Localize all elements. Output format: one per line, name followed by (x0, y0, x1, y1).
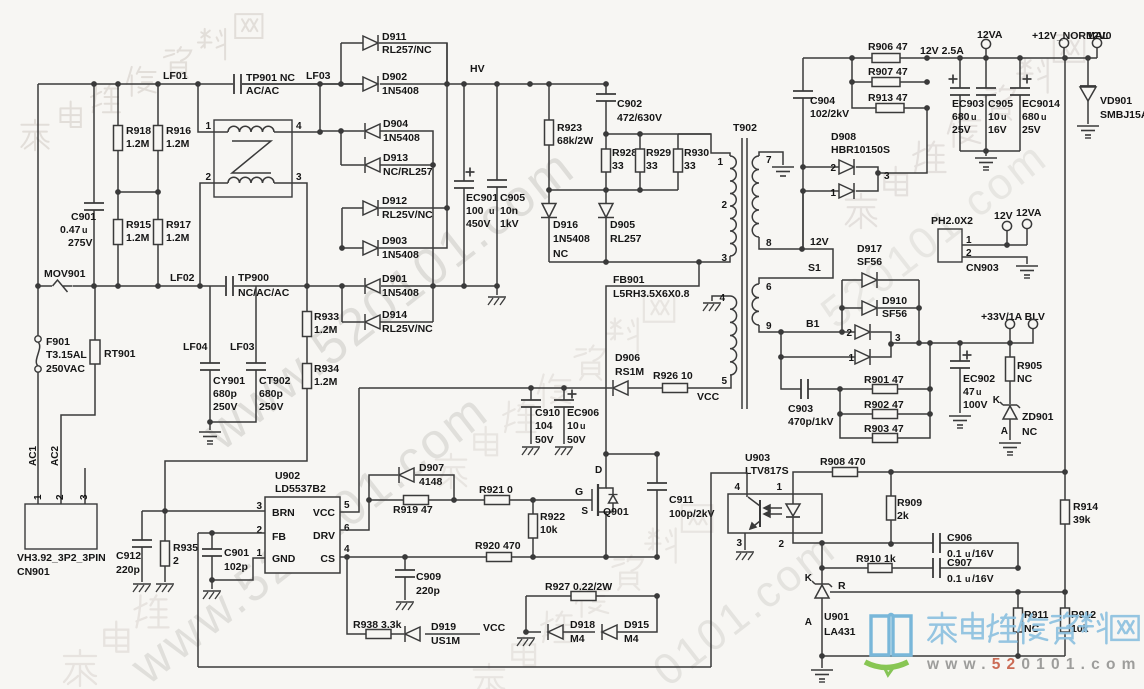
svg-text:R915: R915 (126, 219, 151, 231)
svg-text:C901: C901 (71, 211, 96, 223)
svg-text:R929: R929 (646, 147, 671, 159)
svg-text:6: 6 (766, 282, 772, 293)
svg-text:C905: C905 (988, 98, 1013, 110)
svg-text:2: 2 (256, 525, 262, 536)
capacitor EC9014 (1010, 58, 1060, 151)
diode D907 (369, 462, 454, 500)
svg-text:u: u (489, 206, 495, 216)
svg-text:1.2M: 1.2M (126, 138, 150, 150)
svg-text:u: u (1001, 112, 1007, 122)
svg-text:D904: D904 (383, 118, 408, 130)
svg-text:R907 47: R907 47 (868, 66, 908, 78)
svg-text:NC/RL257: NC/RL257 (383, 166, 433, 178)
svg-text:2: 2 (846, 328, 852, 339)
resistor R929 (636, 134, 672, 190)
svg-text:M4: M4 (570, 633, 585, 645)
zener diode ZD901 (993, 395, 1054, 455)
svg-text:1.2M: 1.2M (314, 376, 338, 388)
wire mid divider rail (115, 189, 161, 195)
capacitor C902 (596, 84, 662, 134)
svg-text:250V: 250V (213, 401, 238, 413)
label 12V 2.5A (920, 45, 964, 57)
svg-text:4148: 4148 (419, 476, 443, 488)
svg-text:7: 7 (766, 155, 772, 166)
node HV (470, 63, 485, 75)
svg-text:C910: C910 (535, 407, 560, 419)
svg-text:MOV901: MOV901 (44, 268, 86, 280)
svg-text:2: 2 (721, 200, 727, 211)
svg-text:u: u (1041, 112, 1047, 122)
svg-text:68k/2W: 68k/2W (557, 135, 593, 147)
svg-text:F901: F901 (46, 336, 70, 348)
wire opto pin1 to R908 (793, 472, 833, 494)
IC U902 LD5537B2 (256, 470, 350, 573)
wire VCC rail (531, 375, 731, 391)
capacitor C901 (60, 84, 104, 286)
svg-text:450V: 450V (466, 218, 491, 230)
resistor R938 (347, 557, 404, 639)
svg-text:RL257: RL257 (610, 233, 642, 245)
shunt regulator U901 LA431 (805, 568, 856, 656)
capacitor EC903 (949, 58, 985, 151)
svg-text:R927 0.22/2W: R927 0.22/2W (545, 581, 612, 593)
svg-text:33: 33 (612, 160, 624, 172)
wire reference R row (830, 580, 1068, 595)
svg-text:U902: U902 (275, 470, 300, 482)
svg-text:C906: C906 (947, 532, 972, 544)
svg-text:2k: 2k (897, 510, 909, 522)
capacitor C901 at FB (202, 533, 249, 599)
svg-text:R910 1k: R910 1k (856, 553, 896, 565)
svg-text:R919 47: R919 47 (393, 504, 433, 516)
svg-text:1: 1 (33, 494, 44, 500)
svg-text:D913: D913 (383, 152, 408, 164)
svg-text:8: 8 (766, 238, 772, 249)
svg-text:CY901: CY901 (213, 375, 245, 387)
resistor R901 (837, 374, 933, 394)
svg-text:250V: 250V (259, 401, 284, 413)
resistor R907 (849, 58, 930, 87)
node LF03 (306, 70, 331, 82)
capacitor C910 (521, 388, 560, 455)
svg-text:3: 3 (79, 494, 90, 500)
svg-text:10n: 10n (500, 205, 518, 217)
svg-text:AC1: AC1 (28, 446, 39, 466)
diode D902 (363, 71, 419, 97)
svg-text:HV: HV (470, 63, 485, 75)
capacitor C907 (933, 557, 1021, 585)
svg-text:1N5408: 1N5408 (553, 233, 590, 245)
svg-text:2: 2 (830, 163, 836, 174)
capacitor EC906 (554, 388, 599, 455)
svg-text:LA431: LA431 (824, 626, 856, 638)
svg-text:D918: D918 (570, 619, 595, 631)
svg-text:RL25V/NC: RL25V/NC (382, 209, 433, 221)
svg-text:1N5408: 1N5408 (382, 85, 419, 97)
wire LF02 rail (35, 283, 500, 289)
terminal 12VA top (977, 29, 1003, 58)
wire bridge right vertical to HV (446, 43, 448, 208)
wire bridge mid vertical (432, 165, 434, 322)
svg-text:U903: U903 (745, 452, 770, 464)
svg-text:10: 10 (567, 420, 579, 432)
capacitor CT902 (210, 286, 291, 422)
wire FB pin2 row and feedback line (198, 530, 265, 667)
resistor R905 (1006, 343, 1043, 404)
svg-text:R928: R928 (612, 147, 637, 159)
resistor R912 (1061, 592, 1097, 656)
wire CN903 pin1 to 12V terminals (962, 242, 1027, 248)
diode D911 (341, 31, 447, 84)
wire LF01 dot to pin1 (198, 84, 214, 132)
svg-text:3: 3 (721, 253, 727, 264)
resistor R906 (868, 41, 908, 63)
svg-text:R917: R917 (166, 219, 191, 231)
svg-text:FB901: FB901 (613, 274, 645, 286)
svg-text:R918: R918 (126, 125, 151, 137)
svg-text:M4: M4 (624, 633, 639, 645)
svg-text:39k: 39k (1073, 514, 1091, 526)
terminal 12VA service (1016, 207, 1042, 245)
svg-text:50V: 50V (535, 434, 554, 446)
svg-text:D919: D919 (431, 621, 456, 633)
T902 primary winding 1-3 (678, 134, 736, 264)
wire LF01 to bridge node LF03 (242, 81, 364, 87)
capacitor EC901 (454, 84, 498, 286)
logo book icon (865, 615, 911, 676)
svg-text:AC/AC: AC/AC (246, 85, 280, 97)
svg-text:3: 3 (296, 172, 302, 183)
svg-text:R926 10: R926 10 (653, 370, 693, 382)
svg-text:LD5537B2: LD5537B2 (275, 483, 326, 495)
svg-text:EC903: EC903 (952, 98, 984, 110)
wire DRV pin6 to node (340, 500, 369, 530)
svg-text:RT901: RT901 (104, 348, 136, 360)
svg-text:EC9014: EC9014 (1022, 98, 1060, 110)
svg-text:D906: D906 (615, 352, 640, 364)
resistor R923 (545, 84, 594, 190)
capacitor C912 (116, 511, 152, 592)
capacitor C906 labels (947, 532, 994, 560)
diode D921 pos1 (778, 332, 901, 365)
svg-text:47: 47 (963, 386, 975, 398)
svg-text:250VAC: 250VAC (46, 363, 85, 375)
svg-text:D916: D916 (553, 219, 578, 231)
svg-text:R938 3.3k: R938 3.3k (353, 619, 402, 631)
svg-text:RL257/NC: RL257/NC (382, 44, 432, 56)
svg-text:u: u (580, 421, 586, 431)
capacitor C905 primary (487, 84, 525, 286)
resistor R911 (1014, 592, 1049, 656)
svg-text:12V 2.5A: 12V 2.5A (920, 45, 964, 57)
svg-text:1N5408: 1N5408 (382, 287, 419, 299)
svg-text:NC: NC (1017, 373, 1033, 385)
wire secondary ground rail (819, 653, 1065, 659)
diode D913 (341, 152, 436, 178)
svg-text:D911: D911 (382, 31, 407, 43)
svg-text:LF03: LF03 (306, 70, 331, 82)
svg-text:220p: 220p (416, 585, 440, 597)
svg-text:D910: D910 (882, 295, 907, 307)
svg-text:33: 33 (646, 160, 658, 172)
svg-text:C911: C911 (669, 494, 694, 506)
terminal +33V (981, 311, 1045, 343)
resistor R909 (887, 472, 923, 544)
svg-text:LF02: LF02 (170, 272, 195, 284)
svg-text:1.2M: 1.2M (126, 232, 150, 244)
wire drain node rail (549, 259, 702, 265)
diode D910 (839, 280, 919, 332)
terminal 12V service (994, 210, 1013, 245)
svg-text:5: 5 (721, 376, 727, 387)
wire CS row (340, 554, 660, 560)
svg-text:2: 2 (778, 539, 784, 550)
svg-text:R905: R905 (1017, 360, 1042, 372)
wire snubber top rail (546, 131, 711, 193)
wire D917 D910 join (916, 280, 922, 346)
svg-text:/16V: /16V (972, 573, 994, 585)
resistor R919 (366, 496, 457, 517)
svg-text:T3.15AL: T3.15AL (46, 349, 87, 361)
resistor R914 (1061, 472, 1099, 592)
LF choke winding 1-4 (205, 121, 302, 132)
svg-text:R923: R923 (557, 122, 582, 134)
svg-text:Q901: Q901 (603, 506, 629, 518)
svg-text:BRN: BRN (272, 507, 295, 519)
svg-text:SF56: SF56 (882, 308, 907, 320)
svg-text:680: 680 (1022, 111, 1040, 123)
svg-text:LF01: LF01 (163, 70, 188, 82)
svg-text:A: A (805, 617, 812, 628)
diode D912 (342, 195, 450, 221)
ground for Y caps (199, 419, 221, 444)
resistor R928 (602, 134, 638, 190)
svg-text:G: G (575, 486, 583, 498)
T902 secondary winding 6-9 (752, 282, 845, 335)
svg-text:12VA: 12VA (977, 29, 1003, 41)
logo site url (926, 656, 1142, 673)
svg-text:US1M: US1M (431, 635, 460, 647)
resistor R926 (653, 370, 720, 403)
svg-text:R902 47: R902 47 (864, 399, 904, 411)
svg-text:S1: S1 (808, 262, 821, 274)
svg-text:R914: R914 (1073, 501, 1098, 513)
capacitor EC902 (949, 343, 995, 428)
svg-text:u: u (965, 574, 971, 584)
node LF03 lower (230, 341, 255, 353)
svg-text:680p: 680p (259, 388, 283, 400)
diode D915 (602, 596, 657, 645)
svg-text:4: 4 (296, 121, 302, 132)
capacitor C903 (781, 357, 840, 428)
transformer LF common-mode choke box (214, 120, 292, 197)
svg-text:R935: R935 (173, 542, 198, 554)
LF choke core Z mark (232, 141, 271, 173)
svg-text:3: 3 (884, 171, 890, 182)
svg-text:220p: 220p (116, 564, 140, 576)
connector CN903 (931, 215, 999, 274)
svg-text:R901 47: R901 47 (864, 374, 904, 386)
svg-text:R922: R922 (540, 511, 565, 523)
resistor R910 (819, 543, 933, 573)
svg-text:D908: D908 (831, 131, 856, 143)
svg-text:CS: CS (320, 553, 335, 565)
svg-text:u: u (976, 387, 982, 397)
wire +33V rail (891, 329, 1033, 346)
node LF01 (163, 70, 188, 82)
diode D903 (342, 208, 447, 261)
wire BRN pin3 row (142, 508, 265, 514)
svg-text:12V0: 12V0 (1087, 30, 1112, 42)
svg-text:TP901 NC: TP901 NC (246, 72, 295, 84)
svg-text:u: u (82, 225, 88, 235)
wire pin3 down to R933 column (292, 183, 307, 286)
svg-text:CN903: CN903 (966, 262, 999, 274)
svg-text:K: K (993, 395, 1001, 406)
svg-text:0.47: 0.47 (60, 224, 81, 236)
svg-text:9: 9 (766, 321, 772, 332)
svg-text:NC: NC (553, 248, 569, 260)
svg-text:LF03: LF03 (230, 341, 255, 353)
diode D901 (365, 273, 419, 299)
svg-text:K: K (805, 573, 813, 584)
diode D906 (613, 352, 644, 396)
transformer T902 core (742, 138, 747, 409)
capacitor C904 (793, 58, 849, 249)
svg-text:DRV: DRV (313, 530, 335, 542)
svg-text:/16V: /16V (972, 548, 994, 560)
svg-text:10: 10 (988, 111, 1000, 123)
svg-text:1: 1 (830, 188, 836, 199)
wire right 12V sense vertical (1062, 58, 1068, 475)
svg-text:R920 470: R920 470 (475, 540, 521, 552)
svg-text:AC2: AC2 (50, 446, 61, 466)
svg-text:D907: D907 (419, 462, 444, 474)
svg-text:D903: D903 (382, 235, 407, 247)
svg-text:A: A (1001, 426, 1008, 437)
svg-text:SMBJ15A: SMBJ15A (1100, 109, 1144, 121)
svg-text:2: 2 (173, 555, 179, 567)
wire opto pin4 to primary return (711, 473, 747, 667)
diode D917 (842, 243, 919, 288)
svg-text:4: 4 (344, 544, 350, 555)
svg-text:10k: 10k (540, 524, 558, 536)
svg-text:HBR10150S: HBR10150S (831, 144, 890, 156)
svg-text:1kV: 1kV (500, 218, 519, 230)
ground opto pin3 (736, 533, 754, 560)
svg-text:CN901: CN901 (17, 566, 50, 578)
svg-text:1.2M: 1.2M (166, 232, 190, 244)
svg-text:C909: C909 (416, 571, 441, 583)
svg-text:1N5408: 1N5408 (383, 132, 420, 144)
terminal BLV (1028, 319, 1037, 328)
svg-text:275V: 275V (68, 237, 93, 249)
svg-text:C905: C905 (500, 192, 525, 204)
node LF02 (170, 272, 195, 284)
svg-text:R908 470: R908 470 (820, 456, 866, 468)
wire HV rail (380, 81, 609, 87)
diode D918 (526, 619, 595, 645)
svg-text:102/2kV: 102/2kV (810, 108, 849, 120)
svg-text:R934: R934 (314, 363, 339, 375)
svg-text:1: 1 (717, 157, 723, 168)
ground at R927 leg (517, 596, 535, 646)
svg-text:R933: R933 (314, 311, 339, 323)
varistor MOV901 (44, 268, 86, 292)
resistor R933 (303, 286, 340, 364)
resistor R908 (820, 456, 1065, 477)
resistor R902 (837, 389, 933, 419)
svg-text:www.520101.com: www.520101.com (926, 656, 1142, 673)
svg-text:104: 104 (535, 420, 553, 432)
diode D905 (598, 190, 642, 262)
svg-text:6: 6 (344, 523, 350, 534)
svg-text:102p: 102p (224, 561, 248, 573)
svg-text:33: 33 (684, 160, 696, 172)
svg-text:LF04: LF04 (183, 341, 208, 353)
ferrite bead FB901 (603, 262, 699, 476)
wire AC line top rail LF01 (38, 81, 364, 87)
svg-text:D905: D905 (610, 219, 635, 231)
transistor Q901 MOSFET (581, 465, 629, 557)
wire VCC feed to pin5 (340, 385, 534, 512)
svg-text:C907: C907 (947, 557, 972, 569)
svg-text:S: S (581, 506, 588, 517)
wire left AC1 vertical (37, 84, 39, 286)
wire bridge left verticals (317, 43, 345, 322)
capacitor TP901 (234, 72, 295, 97)
svg-text:50V: 50V (567, 434, 586, 446)
svg-text:C904: C904 (810, 95, 835, 107)
svg-text:1: 1 (205, 121, 211, 132)
resistor R913 (852, 82, 930, 113)
svg-text:GND: GND (272, 553, 296, 565)
svg-text:12V: 12V (810, 236, 829, 248)
ground for output caps (960, 148, 1020, 170)
svg-text:TP900: TP900 (238, 272, 269, 284)
svg-text:EC906: EC906 (567, 407, 599, 419)
capacitor CY901 (200, 286, 245, 422)
svg-text:R903 47: R903 47 (864, 423, 904, 435)
diode D919 (405, 621, 506, 647)
svg-text:PH2.0X2: PH2.0X2 (931, 215, 973, 227)
svg-text:C901: C901 (224, 547, 249, 559)
svg-text:1.2M: 1.2M (314, 324, 338, 336)
svg-text:1: 1 (848, 353, 854, 364)
resistor R916 (154, 84, 192, 192)
svg-text:B1: B1 (806, 318, 820, 330)
ground at LF02 rail end (488, 286, 506, 305)
svg-text:R916: R916 (166, 125, 191, 137)
svg-text:25V: 25V (1022, 124, 1041, 136)
svg-text:0.1: 0.1 (947, 573, 962, 585)
svg-text:25V: 25V (952, 124, 971, 136)
svg-text:680: 680 (952, 111, 970, 123)
resistor R922 (529, 500, 566, 557)
TVS diode VD901 (1077, 58, 1144, 138)
svg-text:T902: T902 (733, 122, 757, 134)
svg-text:LTV817S: LTV817S (745, 465, 789, 477)
svg-text:4: 4 (719, 293, 725, 304)
svg-text:SF56: SF56 (857, 256, 882, 268)
svg-text:D901: D901 (382, 273, 407, 285)
svg-text:5: 5 (344, 500, 350, 511)
resistor R927 (526, 581, 660, 601)
svg-text:FB: FB (272, 531, 286, 543)
svg-text:VD901: VD901 (1100, 95, 1132, 107)
svg-text:12V: 12V (994, 210, 1013, 222)
wire CN903 pin2 to ground (962, 257, 1038, 278)
